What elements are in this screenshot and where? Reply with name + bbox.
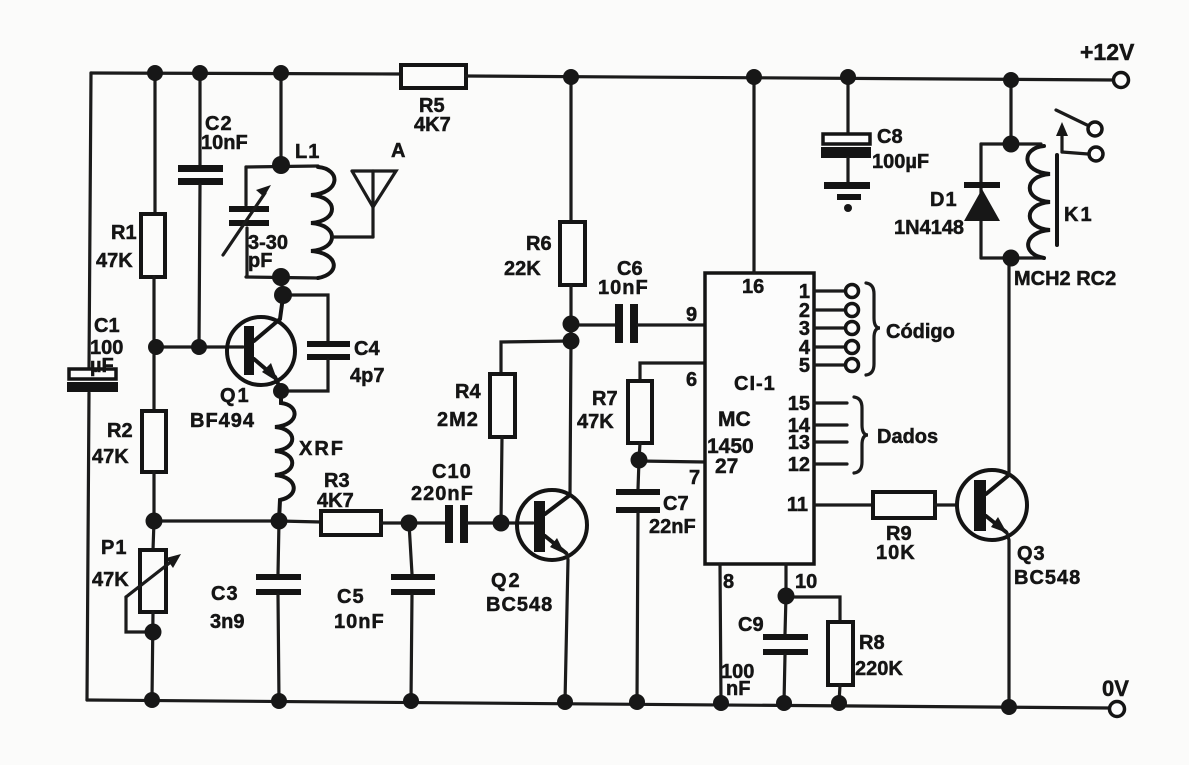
brace Dados <box>854 397 868 473</box>
capacitor C2 <box>178 165 223 185</box>
resistor R9 <box>873 492 935 518</box>
label R1 value <box>96 222 137 272</box>
label C10 value <box>411 461 474 505</box>
inductor L1 <box>311 167 334 278</box>
wire R1 to base node <box>152 277 155 347</box>
svg-text:0V: 0V <box>1102 676 1129 701</box>
wire mid horizontal left <box>154 519 279 522</box>
label Q3 type <box>1014 543 1081 589</box>
wire pin 16 from rail <box>752 77 755 273</box>
svg-text:C8: C8 <box>877 126 903 148</box>
svg-text:pF: pF <box>248 250 272 272</box>
label R2 value <box>92 420 133 468</box>
label R6 value <box>504 233 552 280</box>
resistor R4 <box>490 374 515 437</box>
label R8 value <box>855 632 903 680</box>
svg-text:100µF: 100µF <box>872 151 929 173</box>
svg-text:C9: C9 <box>738 614 764 636</box>
svg-text:47K: 47K <box>577 411 614 433</box>
capacitor trimmer 3-30pF <box>223 185 271 255</box>
wire pin 15 <box>814 401 847 404</box>
label K1 <box>1064 204 1094 226</box>
label MC145027 <box>707 408 754 478</box>
wire relay bottom <box>981 256 1044 259</box>
svg-text:2M2: 2M2 <box>437 409 479 431</box>
svg-text:A: A <box>391 140 405 162</box>
wire pin 7 <box>639 461 705 462</box>
label pin 10 <box>795 571 817 593</box>
svg-text:R8: R8 <box>859 632 885 654</box>
label R3 value <box>317 470 354 512</box>
IC CI-1 MC145027 <box>705 273 814 564</box>
svg-text:+12V: +12V <box>1080 39 1135 65</box>
label pin 7 <box>689 467 700 489</box>
svg-text:K1: K1 <box>1064 204 1094 226</box>
label Dados <box>877 426 938 448</box>
wire C8 branch from rail <box>846 77 849 134</box>
resistor R3 <box>321 511 381 535</box>
wire Q3 collector to relay <box>1007 258 1010 475</box>
svg-text:10nF: 10nF <box>598 277 649 299</box>
node +12V terminal <box>1114 73 1129 88</box>
label C4 value <box>350 338 384 387</box>
transistor Q3 <box>957 470 1027 540</box>
label C9 value <box>721 614 764 700</box>
svg-text:5: 5 <box>799 355 810 377</box>
svg-text:6: 6 <box>686 369 697 391</box>
resistor R5 <box>401 65 466 88</box>
wire R4 branch <box>501 341 571 374</box>
label pin 11 <box>787 494 808 516</box>
transistor Q2 <box>517 490 587 560</box>
svg-text:10nF: 10nF <box>334 611 385 633</box>
label C8 value <box>872 126 929 173</box>
label C7 value <box>649 493 696 538</box>
resistor R7 <box>628 381 652 443</box>
svg-text:R1: R1 <box>111 222 137 244</box>
label L1 <box>295 141 320 163</box>
svg-text:4p7: 4p7 <box>350 365 384 387</box>
svg-text:L1: L1 <box>295 141 320 163</box>
capacitor C5 <box>391 523 435 701</box>
label C2 value <box>201 113 248 154</box>
svg-text:Q3: Q3 <box>1017 543 1046 565</box>
svg-text:C10: C10 <box>432 461 472 483</box>
wire pin 10 <box>784 564 787 596</box>
label pin 1 <box>799 281 810 303</box>
wire R6 branch from rail <box>569 77 572 222</box>
svg-text:MC: MC <box>718 408 751 431</box>
wire R2 to mid rail <box>152 472 155 521</box>
svg-text:C7: C7 <box>663 493 689 515</box>
capacitor C3 <box>256 521 301 701</box>
antenna A <box>352 171 396 237</box>
label A <box>391 140 405 162</box>
wire pin 1 <box>814 285 859 298</box>
wire +12V top rail left segment <box>91 73 401 74</box>
wire C2 to base wire <box>199 185 200 347</box>
svg-text:12: 12 <box>788 454 810 476</box>
label C3 value <box>210 583 244 633</box>
svg-text:22nF: 22nF <box>649 516 696 538</box>
wire +12V top rail right segment <box>466 76 1114 80</box>
svg-text:47K: 47K <box>92 569 129 591</box>
label +12V <box>1080 39 1135 65</box>
svg-text:4K7: 4K7 <box>317 490 354 512</box>
resistor R8 <box>828 622 853 685</box>
label pin 8 <box>723 571 734 593</box>
label pin 14 <box>788 415 811 437</box>
label MCH2 RC2 <box>1014 268 1116 290</box>
svg-text:7: 7 <box>689 467 700 489</box>
wire C6 to pin 9 <box>638 323 705 326</box>
resistor R1 <box>141 214 165 277</box>
wire R4 to Q2 base node <box>501 437 502 523</box>
svg-text:R3: R3 <box>324 470 350 492</box>
ground under C8 <box>824 182 870 212</box>
svg-text:C3: C3 <box>211 583 239 605</box>
capacitor C4 <box>281 295 350 391</box>
label pin 5 <box>799 355 810 377</box>
wire C6 node to Q2 collector <box>570 341 571 494</box>
label D1 type <box>894 189 964 239</box>
svg-text:µF: µF <box>90 355 114 377</box>
wire R6 to C6 node <box>569 285 572 341</box>
svg-text:Código: Código <box>886 321 955 343</box>
svg-text:D1: D1 <box>930 189 958 211</box>
wire pin 11 <box>814 503 873 506</box>
svg-text:nF: nF <box>726 678 750 700</box>
svg-text:10K: 10K <box>876 542 916 564</box>
wire R3 to C10 node <box>381 521 446 524</box>
label C6 value <box>598 258 649 299</box>
wire tank left with trimmer gap <box>246 167 247 277</box>
label C5 value <box>334 586 385 633</box>
label pin 9 <box>686 304 697 326</box>
wire tank feed from rail <box>279 73 282 165</box>
label pin 3 <box>799 318 810 340</box>
transistor Q1 <box>227 297 295 390</box>
label C1 value <box>90 315 123 377</box>
svg-text:R2: R2 <box>107 420 133 442</box>
svg-text:13: 13 <box>788 432 810 454</box>
resistor R6 <box>560 222 585 285</box>
svg-text:R6: R6 <box>526 233 552 255</box>
label XRF <box>299 438 345 460</box>
label R7 value <box>577 388 618 433</box>
capacitor C6 <box>571 304 638 343</box>
svg-text:R4: R4 <box>455 381 481 403</box>
capacitor C7 <box>616 460 660 702</box>
label pin 2 <box>799 300 810 322</box>
wire pin 2 <box>814 304 859 317</box>
wire pin 3 <box>814 322 859 335</box>
svg-text:4K7: 4K7 <box>414 114 451 136</box>
label R4 value <box>437 381 481 431</box>
wire left edge vertical <box>87 73 91 700</box>
wire 0V bottom rail <box>87 700 1109 708</box>
svg-text:15: 15 <box>788 393 810 415</box>
wire pin 8 to rail <box>720 564 721 703</box>
svg-text:16: 16 <box>742 276 764 298</box>
svg-text:MCH2 RC2: MCH2 RC2 <box>1014 268 1116 290</box>
wire base node to R2 <box>152 347 155 411</box>
wire pin 12 <box>814 462 847 465</box>
wire pin 6 to R7 <box>640 363 705 381</box>
label R5 value <box>414 95 451 136</box>
label pin 12 <box>788 454 810 476</box>
svg-text:9: 9 <box>686 304 697 326</box>
svg-text:Q2: Q2 <box>491 570 522 592</box>
svg-text:3n9: 3n9 <box>210 611 244 633</box>
wire pin 5 <box>814 359 859 372</box>
svg-text:R7: R7 <box>592 388 618 410</box>
label R9 value <box>876 523 916 564</box>
diode D1 1N4148 <box>964 182 1000 221</box>
wire R1 branch from rail <box>153 73 156 214</box>
label Codigo <box>886 321 955 343</box>
wire relay left branch <box>979 144 982 258</box>
wire relay feed from rail <box>1009 80 1012 144</box>
wire C10 to Q2 base <box>468 521 533 524</box>
svg-text:8: 8 <box>723 571 734 593</box>
label P1 value <box>92 537 129 591</box>
node 0V terminal <box>1110 702 1125 717</box>
wire P1 to bottom rail <box>152 612 153 700</box>
svg-text:C1: C1 <box>94 315 120 337</box>
wire pin 13 <box>814 440 847 443</box>
svg-text:BC548: BC548 <box>486 594 553 616</box>
svg-text:P1: P1 <box>101 537 127 559</box>
wire P1 wiper bracket <box>126 597 153 632</box>
svg-text:Q1: Q1 <box>220 385 251 407</box>
wire Q3 emitter to rail <box>1007 533 1009 707</box>
brace Codigo <box>866 283 880 375</box>
wire pin 4 <box>814 341 859 354</box>
wire pin 14 <box>814 423 847 426</box>
wire antenna tap <box>333 235 373 238</box>
svg-text:BC548: BC548 <box>1014 567 1081 589</box>
label pin 13 <box>788 432 810 454</box>
wire tank bottom to collector node <box>281 277 283 295</box>
resistor R2 <box>142 411 166 472</box>
label Q1 type <box>190 385 255 432</box>
svg-text:10nF: 10nF <box>201 132 248 154</box>
svg-text:47K: 47K <box>96 250 133 272</box>
svg-text:XRF: XRF <box>299 438 345 460</box>
wire R9 to Q3 base <box>935 503 957 506</box>
svg-text:27: 27 <box>715 455 738 478</box>
label pin 15 <box>788 393 810 415</box>
svg-text:220nF: 220nF <box>411 483 474 505</box>
inductor XRF <box>275 391 295 521</box>
svg-text:11: 11 <box>787 494 808 516</box>
switch contact K1 <box>1056 110 1103 161</box>
inductor K1 relay coil <box>1027 146 1057 258</box>
svg-text:C4: C4 <box>354 338 380 360</box>
label CI-1 <box>734 373 776 395</box>
capacitor C9 <box>763 596 808 703</box>
label Q2 type <box>486 570 553 616</box>
svg-text:Dados: Dados <box>877 426 938 448</box>
wire tank top <box>246 166 318 167</box>
svg-text:47K: 47K <box>92 446 129 468</box>
wire mid node to P1 <box>153 521 154 550</box>
capacitor C1 <box>67 369 118 392</box>
wire mid horizontal to R3 <box>279 521 321 522</box>
wire tank bottom <box>246 277 318 278</box>
wire Q1 base wire <box>154 345 243 348</box>
svg-text:220K: 220K <box>855 658 903 680</box>
svg-text:C5: C5 <box>337 586 365 608</box>
wire pin10 node to R8 <box>786 597 840 622</box>
capacitor C10 <box>445 505 468 543</box>
svg-text:22K: 22K <box>504 258 541 280</box>
svg-text:CI-1: CI-1 <box>734 373 776 395</box>
wire C2 branch from rail <box>198 73 201 167</box>
label 0V <box>1102 676 1129 701</box>
capacitor C8 <box>821 134 871 182</box>
wire R8 to rail <box>839 685 840 703</box>
svg-text:1N4148: 1N4148 <box>894 217 964 239</box>
wire R7 to pin 7 node <box>639 443 640 460</box>
label pin 4 <box>799 337 811 359</box>
wire Q2 emitter to rail <box>565 554 568 702</box>
potentiometer P1 <box>126 550 181 612</box>
svg-text:10: 10 <box>795 571 817 593</box>
label trimmer value <box>248 232 288 272</box>
wire relay top <box>981 142 1041 145</box>
label pin 6 <box>686 369 697 391</box>
label pin 16 <box>742 276 764 298</box>
svg-text:BF494: BF494 <box>190 410 255 432</box>
